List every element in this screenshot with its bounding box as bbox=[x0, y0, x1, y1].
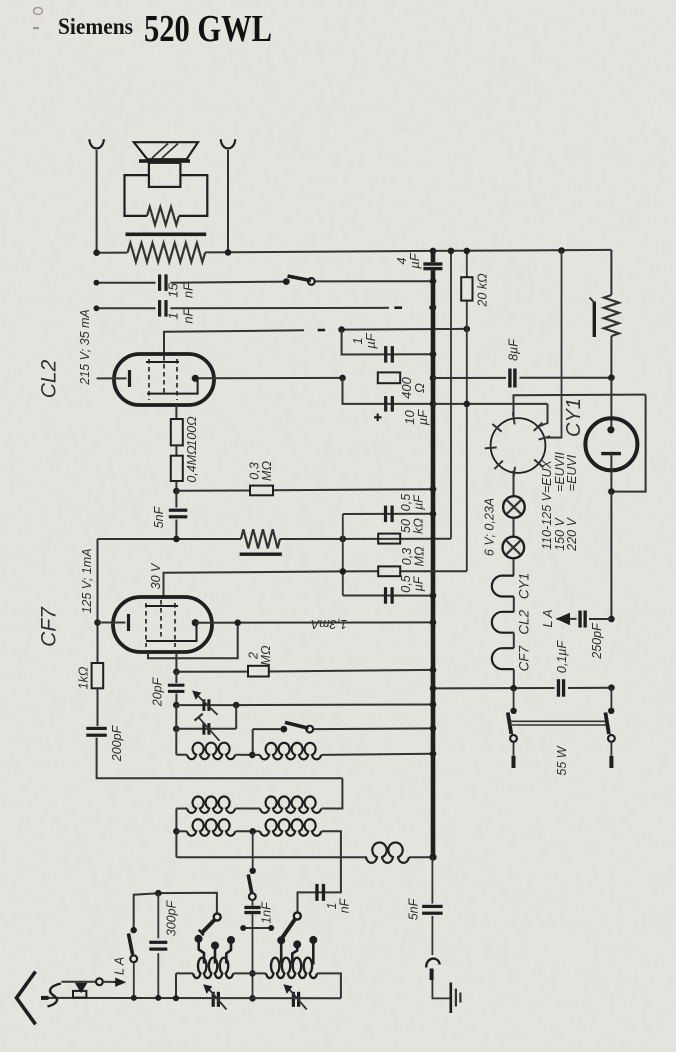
antenna plug triangle bbox=[75, 983, 88, 993]
wire 467 vertical bbox=[466, 251, 468, 571]
label EUVII bbox=[553, 452, 567, 492]
voltage selector circle bbox=[491, 418, 546, 473]
node band1 bus bbox=[430, 725, 437, 732]
svg-text:µF: µF bbox=[415, 409, 430, 425]
lamp L2 bbox=[503, 537, 525, 559]
wire bottom main bbox=[41, 997, 341, 999]
antenna symbol bbox=[17, 972, 36, 1025]
tube CF7 grid2 dash bbox=[174, 603, 176, 647]
wire middle to bottom bbox=[252, 973, 254, 998]
label 100 Ohm bbox=[185, 416, 199, 447]
wire 30V line bbox=[164, 571, 467, 597]
node 10uF at bus bbox=[430, 401, 437, 408]
label 10uF bbox=[402, 409, 430, 425]
wire 5nF to link bbox=[431, 916, 433, 955]
wire right terminal drop bbox=[227, 150, 229, 252]
wire 0,5uF bottom branch bbox=[343, 595, 433, 597]
tube CF7 anode node bbox=[192, 619, 199, 626]
switch LA down wire bbox=[133, 962, 135, 998]
label EUVI bbox=[565, 454, 579, 491]
coil L3a bbox=[176, 819, 235, 836]
tube CL2 cathode bbox=[97, 370, 130, 387]
wire 15nF line bbox=[96, 281, 433, 283]
node 0,5uF bottom bus bbox=[430, 592, 437, 599]
capacitor 1uF bbox=[384, 346, 394, 363]
antenna hook bbox=[48, 984, 61, 1007]
label 1,3mA bbox=[311, 617, 347, 631]
label 250pF bbox=[590, 622, 604, 660]
svg-text:100Ω: 100Ω bbox=[185, 416, 199, 447]
wire trimmer2 line bbox=[176, 705, 236, 729]
svg-text:5nF: 5nF bbox=[406, 897, 420, 920]
label 1nF grid bbox=[166, 307, 196, 323]
svg-text:µF: µF bbox=[412, 494, 426, 510]
wire bottom 857 line bbox=[176, 856, 367, 858]
svg-text:MΩ: MΩ bbox=[413, 546, 427, 566]
field coil resistor bbox=[128, 243, 206, 262]
label 0,5uF bottom bbox=[399, 575, 426, 592]
selector ticks bbox=[485, 413, 550, 479]
label 400 Ohm bbox=[399, 376, 427, 398]
capacitor trimmer2 bbox=[195, 714, 220, 741]
tube CY1 anode node bbox=[607, 426, 614, 433]
resistor 20kOhm bbox=[461, 277, 472, 300]
wire small coil to bus bbox=[409, 856, 433, 858]
svg-text:220 V: 220 V bbox=[565, 517, 579, 552]
switch S1 lever bbox=[288, 276, 312, 281]
wire 451 vertical bbox=[450, 251, 452, 539]
switch cluster1 pole bbox=[214, 914, 221, 921]
node bus top bbox=[430, 248, 437, 255]
coil L1b bbox=[252, 743, 321, 760]
label 6V 0,23A bbox=[482, 498, 496, 556]
label 200pF bbox=[110, 724, 124, 762]
label 5nF left bbox=[152, 505, 166, 528]
label 1kOhm bbox=[76, 666, 90, 689]
switch band1 pole bbox=[306, 726, 313, 733]
switch wavechange contact bbox=[250, 868, 256, 874]
wire cluster1 up bbox=[158, 893, 217, 914]
wire selector east bbox=[546, 437, 562, 439]
switch cluster2 pole bbox=[294, 913, 301, 920]
antenna stub bbox=[41, 996, 49, 1000]
wire main top line bbox=[97, 250, 612, 253]
node crossbar left bbox=[240, 925, 246, 931]
node 0,3M at bus bbox=[430, 486, 437, 493]
wire CF7 screen loop bbox=[148, 623, 238, 659]
wire CF7 grid pin bbox=[175, 652, 177, 672]
svg-text:CL2: CL2 bbox=[37, 359, 60, 398]
wire dropper top bbox=[610, 250, 612, 295]
wire 2M line bbox=[176, 670, 433, 672]
svg-text:CY1: CY1 bbox=[563, 398, 585, 437]
wire row4 gap bbox=[233, 972, 266, 974]
switch LA pole bbox=[130, 955, 137, 962]
capacitor 250pF bbox=[578, 611, 586, 628]
resistor 50kOhm bbox=[378, 534, 400, 544]
svg-text:CL2: CL2 bbox=[517, 609, 532, 634]
switch mains left pole bbox=[510, 735, 517, 742]
wire heater gap1 bbox=[513, 597, 515, 612]
resistor 400 Ohm bbox=[378, 372, 400, 383]
wire heater bottom bbox=[513, 669, 515, 688]
capacitor trimmer1 bbox=[192, 691, 217, 715]
title 520 GWL bbox=[144, 8, 272, 50]
svg-text:µF: µF bbox=[363, 332, 378, 348]
antenna socket box bbox=[73, 991, 86, 998]
label 1nF middle bbox=[259, 901, 273, 924]
label 30V bbox=[149, 562, 163, 589]
wire middle down bbox=[252, 914, 254, 973]
wire CY1 down bbox=[610, 492, 612, 619]
label 15nF bbox=[166, 282, 196, 298]
label 0,1uF bbox=[555, 640, 569, 674]
wire dropper bottom bbox=[610, 336, 612, 378]
wire 404 line right bbox=[433, 403, 548, 405]
svg-text:125 V; 1mA: 125 V; 1mA bbox=[80, 548, 94, 613]
node 15nF line left bbox=[94, 280, 100, 286]
svg-text:250pF: 250pF bbox=[590, 622, 604, 660]
wire row3 mid bbox=[236, 830, 261, 832]
switch mains left lever bbox=[508, 713, 512, 735]
label CF7 bbox=[37, 606, 60, 647]
wire pot line bbox=[98, 538, 452, 540]
node 0,1uF bus bbox=[430, 685, 437, 692]
wire 561 vertical bbox=[546, 251, 561, 438]
svg-text:1,3mA: 1,3mA bbox=[311, 617, 347, 631]
switch mains left contact bbox=[510, 708, 516, 714]
wire CY1 anode in bbox=[610, 378, 612, 430]
main HT bus bbox=[431, 251, 436, 857]
switch S1 contact bbox=[283, 278, 290, 285]
svg-text:1: 1 bbox=[166, 312, 181, 319]
coil L3b bbox=[260, 819, 321, 836]
switch mains left stem bbox=[513, 688, 515, 708]
wire CL2 bottom pin bbox=[175, 405, 177, 419]
svg-text:CY1: CY1 bbox=[517, 573, 532, 599]
hum-buck resistor in box bbox=[147, 207, 179, 225]
label 0,5uF top bbox=[399, 494, 426, 511]
svg-text:20pF: 20pF bbox=[150, 676, 164, 707]
svg-text:55 W: 55 W bbox=[555, 745, 569, 775]
resistor 100 Ohm bbox=[171, 419, 183, 445]
node left block bottom bbox=[173, 995, 179, 1001]
switch wavechange lever bbox=[248, 875, 252, 894]
tube CF7 grid1 dash bbox=[145, 603, 147, 647]
label 220V bbox=[565, 517, 579, 552]
capacitor 0,1uF bbox=[557, 679, 565, 697]
tube CL2 envelope bbox=[114, 354, 214, 405]
resistor 2 MOhm bbox=[248, 666, 269, 677]
capacitor 1nF middle bbox=[244, 900, 260, 914]
tap2 finger3 bbox=[309, 936, 317, 965]
resistor 0,3 MOhm a bbox=[250, 486, 273, 496]
label 1nF right bbox=[325, 897, 352, 913]
link hook bbox=[426, 959, 439, 980]
svg-text:kΩ: kΩ bbox=[412, 518, 426, 534]
svg-text:215 V; 35 mA: 215 V; 35 mA bbox=[78, 309, 92, 386]
heater CY1 bbox=[492, 576, 514, 597]
node 0,3M line bbox=[340, 568, 347, 575]
label LA right bbox=[541, 609, 555, 627]
switch LA contact bbox=[131, 927, 137, 933]
wire between resistors bbox=[175, 445, 177, 455]
coil L2b bbox=[260, 796, 321, 813]
svg-text:0,1µF: 0,1µF bbox=[555, 640, 569, 674]
capacitor 1nF grid bbox=[158, 300, 168, 317]
node 0,1uF right bbox=[608, 684, 615, 691]
capacitor 0,5uF bottom bbox=[384, 587, 394, 604]
tube CY1 cathode bbox=[601, 454, 621, 492]
arrow LA right bbox=[556, 613, 570, 626]
svg-text:300pF: 300pF bbox=[164, 899, 178, 936]
svg-text:8µF: 8µF bbox=[506, 338, 520, 361]
node 1uF at bus bbox=[430, 351, 437, 358]
wire selector to lamp bbox=[513, 471, 515, 497]
svg-text:110-125 V=EUX: 110-125 V=EUX bbox=[540, 459, 554, 549]
wire 10uF branch bbox=[343, 378, 434, 404]
switch S1 pole bbox=[308, 278, 315, 285]
node 400 line left bbox=[339, 375, 346, 382]
coil L6 LW bbox=[266, 958, 317, 978]
node pot at 343 bbox=[340, 536, 347, 543]
switch cluster1 lever bbox=[199, 920, 215, 936]
svg-text:nF: nF bbox=[181, 307, 196, 323]
label CY1 heater bbox=[517, 573, 532, 599]
switch LA top wire bbox=[134, 893, 159, 927]
tap1 finger1 bbox=[195, 935, 205, 964]
wire row2 right bbox=[322, 778, 343, 808]
node top line left bbox=[93, 249, 100, 256]
switch band1 contact bbox=[280, 726, 287, 733]
tube CF7 anode plate bbox=[145, 606, 197, 641]
svg-text:0,4MΩ: 0,4MΩ bbox=[185, 445, 199, 483]
node trimmer1 right bbox=[233, 702, 240, 709]
switch coupling bar bbox=[510, 721, 609, 725]
wire link to ground bbox=[432, 980, 449, 998]
label 20pF bbox=[150, 676, 164, 707]
switch mains right lever bbox=[605, 713, 609, 735]
node trimmer1 left bbox=[173, 702, 180, 709]
speaker cone bbox=[134, 142, 198, 159]
svg-text:5nF: 5nF bbox=[152, 505, 166, 528]
switch band1 lever bbox=[285, 722, 309, 728]
wire coil row1 left bbox=[175, 729, 177, 755]
capacitor 0,5uF top bbox=[384, 506, 394, 522]
wire band switch feed bbox=[252, 729, 254, 755]
wire 200pF to corner bbox=[97, 738, 343, 779]
node coil row1 mid bbox=[249, 752, 256, 759]
svg-text:1nF: 1nF bbox=[259, 901, 273, 924]
node coil row1 bus bbox=[430, 750, 437, 757]
svg-text:15: 15 bbox=[166, 283, 181, 298]
wire cluster2 up bbox=[298, 892, 342, 912]
resistor 1kOhm bbox=[92, 663, 104, 688]
node pot line 176 bbox=[173, 536, 180, 543]
svg-text:L A: L A bbox=[541, 609, 555, 627]
node 467 top bbox=[464, 248, 471, 255]
wire 0,3M line bbox=[176, 489, 433, 491]
wire to node 491 bbox=[175, 481, 177, 491]
wire band1 to contact bbox=[253, 728, 281, 730]
wire lamp to heater bbox=[513, 558, 515, 575]
switch mains right pole bbox=[608, 735, 615, 742]
wire 250pF branch bbox=[557, 618, 612, 620]
svg-text:µF: µF bbox=[407, 252, 422, 268]
wire CY1 right loop bbox=[611, 395, 645, 492]
speaker terminal fork right bbox=[221, 139, 236, 148]
svg-text:L A: L A bbox=[112, 957, 126, 975]
scan artifact bbox=[33, 8, 43, 30]
wire left terminal drop bbox=[96, 150, 98, 253]
wire below 1k bbox=[97, 688, 99, 726]
coil L2a bbox=[176, 796, 235, 813]
switch LA lever bbox=[128, 934, 132, 955]
label 150V bbox=[553, 517, 567, 551]
wire 343 vertical bbox=[342, 514, 344, 596]
wire coil row1 right bbox=[322, 754, 434, 755]
capacitor gang2 bbox=[283, 984, 306, 1009]
wire row2 left vert bbox=[175, 809, 177, 858]
tube CF7 envelope bbox=[113, 597, 212, 652]
heater CL2 bbox=[492, 612, 514, 633]
node grid line at 467 bbox=[464, 326, 471, 333]
label 2 MOhm bbox=[247, 645, 274, 665]
node 1nF line left bbox=[94, 305, 100, 311]
switch mains left stub bbox=[513, 742, 515, 768]
tube CF7 cathode bbox=[98, 614, 129, 631]
label CF7 heater bbox=[517, 645, 532, 671]
tap2 finger2 bbox=[292, 940, 301, 963]
capacitor 1nF right bbox=[315, 884, 325, 901]
tube CL2 grid1 dash bbox=[148, 359, 150, 400]
svg-text:µF: µF bbox=[412, 575, 426, 591]
node trimmer1 bus bbox=[430, 701, 437, 708]
capacitor 4uF bbox=[423, 262, 442, 270]
node crossbar right bbox=[268, 925, 274, 931]
label 4uF bbox=[394, 252, 422, 268]
potentiometer zigzag bbox=[241, 529, 280, 548]
tube CF7 grid3 dash bbox=[160, 600, 162, 642]
node 400 at bus bbox=[430, 375, 437, 382]
tap1 finger2 bbox=[211, 942, 219, 964]
node row3 left bbox=[173, 828, 180, 835]
label 55W bbox=[555, 745, 569, 775]
node 300pF bottom bbox=[155, 995, 161, 1001]
wire row3 right bbox=[322, 831, 341, 892]
node screen join bbox=[234, 619, 241, 626]
label LA left bbox=[112, 957, 126, 975]
svg-text:MΩ: MΩ bbox=[259, 645, 273, 665]
switch mains right stub bbox=[610, 742, 612, 768]
coil L4 small bbox=[366, 842, 409, 862]
wire row4 right bbox=[317, 973, 341, 998]
svg-text:CF7: CF7 bbox=[37, 606, 60, 647]
capacitor 20pF bbox=[168, 672, 185, 705]
tap1 finger3 bbox=[226, 936, 235, 964]
speaker magnet bar bbox=[139, 159, 190, 163]
wire 404 to selector bbox=[538, 404, 548, 427]
antenna branch pole bbox=[96, 978, 103, 985]
heater CF7 bbox=[492, 648, 514, 669]
capacitor 5nF left bbox=[169, 491, 188, 539]
svg-text:=EUVI: =EUVI bbox=[565, 454, 579, 491]
svg-text:Ω: Ω bbox=[412, 383, 427, 393]
label 50kOhm bbox=[399, 518, 426, 534]
node HT at 611 bbox=[608, 374, 615, 381]
node 250pF bbox=[608, 616, 615, 623]
tube CL2 grid3 dash bbox=[163, 356, 165, 396]
node 561 top bbox=[558, 247, 565, 254]
node 491 bbox=[173, 488, 180, 495]
tube CY1 envelope bbox=[585, 418, 637, 470]
barretter bar bbox=[590, 298, 597, 338]
node anode at bus bbox=[430, 619, 437, 626]
wire left block vert bbox=[175, 973, 177, 998]
label 215V 35mA bbox=[78, 309, 92, 386]
svg-text:nF: nF bbox=[181, 282, 196, 298]
svg-text:CF7: CF7 bbox=[517, 645, 532, 671]
svg-text:1kΩ: 1kΩ bbox=[76, 666, 90, 689]
tube CL2 grid2 dash bbox=[176, 359, 178, 400]
node CY1 cathode bbox=[608, 488, 615, 495]
node CL2 grid line bbox=[338, 326, 345, 333]
wire band1 right bbox=[313, 727, 433, 730]
wire trimmer1 line bbox=[176, 704, 433, 707]
label 0,3 MOhm a bbox=[248, 461, 275, 481]
switch mains right contact bbox=[608, 708, 614, 714]
svg-text:MΩ: MΩ bbox=[260, 461, 274, 481]
capacitor gang1 bbox=[203, 984, 226, 1009]
switch cluster2 lever bbox=[282, 919, 296, 939]
label 300pF bbox=[164, 899, 178, 936]
node 2M at bus bbox=[430, 667, 437, 674]
label CY1 bbox=[563, 398, 585, 437]
wire bus to 5nF bbox=[431, 857, 433, 903]
capacitor 200pF bbox=[86, 727, 107, 737]
node middle coil bbox=[249, 970, 256, 977]
node 404 at 467 bbox=[464, 401, 471, 408]
svg-text:520 GWL: 520 GWL bbox=[144, 8, 272, 50]
wire selector top line bbox=[514, 395, 646, 418]
wire cathode bus upper bbox=[97, 539, 99, 663]
label 20kOhm bbox=[475, 273, 489, 308]
label 125V 1mA bbox=[80, 548, 94, 613]
capacitor 300pF bbox=[149, 893, 167, 998]
wire anode HT line bbox=[433, 377, 611, 379]
node bus bottom bbox=[429, 854, 436, 861]
coil L5 MW bbox=[176, 958, 233, 978]
resistor 0,4 MOhm bbox=[171, 456, 183, 481]
node 0,5uF top bus bbox=[430, 511, 437, 518]
wire heater gap2 bbox=[513, 633, 515, 649]
wire 1uF branch bbox=[342, 330, 433, 355]
output transformer box bbox=[125, 175, 208, 216]
label 0,3 MOhm b bbox=[400, 546, 427, 566]
node 451 top bbox=[448, 248, 455, 255]
label CL2 heater bbox=[517, 609, 532, 634]
speaker terminal fork left bbox=[89, 139, 104, 148]
resistor mains dropper bbox=[604, 295, 619, 336]
capacitor 10uF electrolytic bbox=[384, 396, 394, 412]
capacitor 15nF bbox=[158, 274, 168, 291]
tube CL2 anode node bbox=[192, 375, 199, 382]
wire row2 mid bbox=[236, 808, 261, 810]
wire crossbar bbox=[243, 927, 271, 929]
wire CL2 grid line bbox=[164, 329, 467, 354]
node heater join bbox=[510, 685, 517, 692]
svg-text:Siemens: Siemens bbox=[58, 14, 133, 39]
